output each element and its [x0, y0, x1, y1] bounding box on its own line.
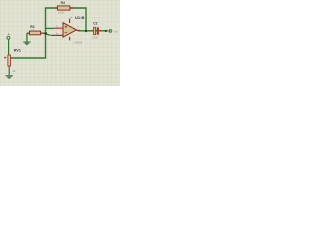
op-amp plus input mark: [65, 26, 67, 28]
junction node at output probe: [105, 30, 107, 32]
svg-text:U1:B: U1:B: [75, 15, 84, 20]
background grid: [0, 0, 120, 86]
svg-text:out: out: [114, 29, 118, 33]
resistor R3 leads: [27, 32, 45, 34]
ground (below RV1): [6, 76, 13, 79]
junction node at output column: [85, 30, 87, 32]
svg-text:LM358: LM358: [73, 41, 82, 45]
resistor R4 leads: [55, 7, 74, 9]
wire: pot bottom to ground: [8, 66, 10, 75]
svg-text:R4: R4: [61, 1, 65, 5]
capacitor C2 leads: [91, 30, 103, 32]
op-amp U1:B body: [63, 23, 76, 38]
svg-text:C2: C2: [93, 22, 97, 26]
potentiometer RV1 wiper lead: [11, 57, 12, 59]
resistor R4 body: [57, 6, 70, 10]
svg-text:1k: 1k: [12, 69, 16, 73]
wire: probe down to pot top: [8, 39, 10, 55]
wire: R3 left down to ground: [26, 33, 28, 41]
capacitor C2 left plate (hollow): [94, 27, 96, 34]
input probe: [7, 36, 10, 39]
wire: R3 to inputs: [27, 32, 46, 34]
op-amp output lead: [76, 29, 80, 31]
potentiometer RV1 wiper arrow: [4, 56, 6, 59]
capacitor C2 right plate: [97, 27, 99, 34]
svg-text:10k: 10k: [30, 28, 35, 32]
resistor R3 body: [29, 31, 40, 35]
wire: non-inverting input stub: [46, 34, 51, 36]
wire: inverting input stub: [46, 27, 55, 29]
svg-text:10uF: 10uF: [92, 35, 99, 39]
output probe: [107, 29, 112, 32]
op-amp input leads: [51, 28, 64, 35]
svg-text:100k: 100k: [58, 10, 65, 14]
junction node at inverting input: [44, 32, 47, 35]
ground (below R3): [23, 42, 30, 45]
svg-text:in: in: [6, 33, 10, 36]
potentiometer RV1 body: [8, 55, 11, 66]
op-amp power pin top: [69, 19, 71, 23]
op-amp power pin bottom: [69, 37, 71, 40]
svg-text:RV1: RV1: [14, 48, 21, 52]
wire: feedback loop top (pot wiper to R4 row to output column): [11, 8, 86, 58]
op-amp minus input mark: [65, 31, 67, 33]
wire: output row: [78, 30, 107, 32]
